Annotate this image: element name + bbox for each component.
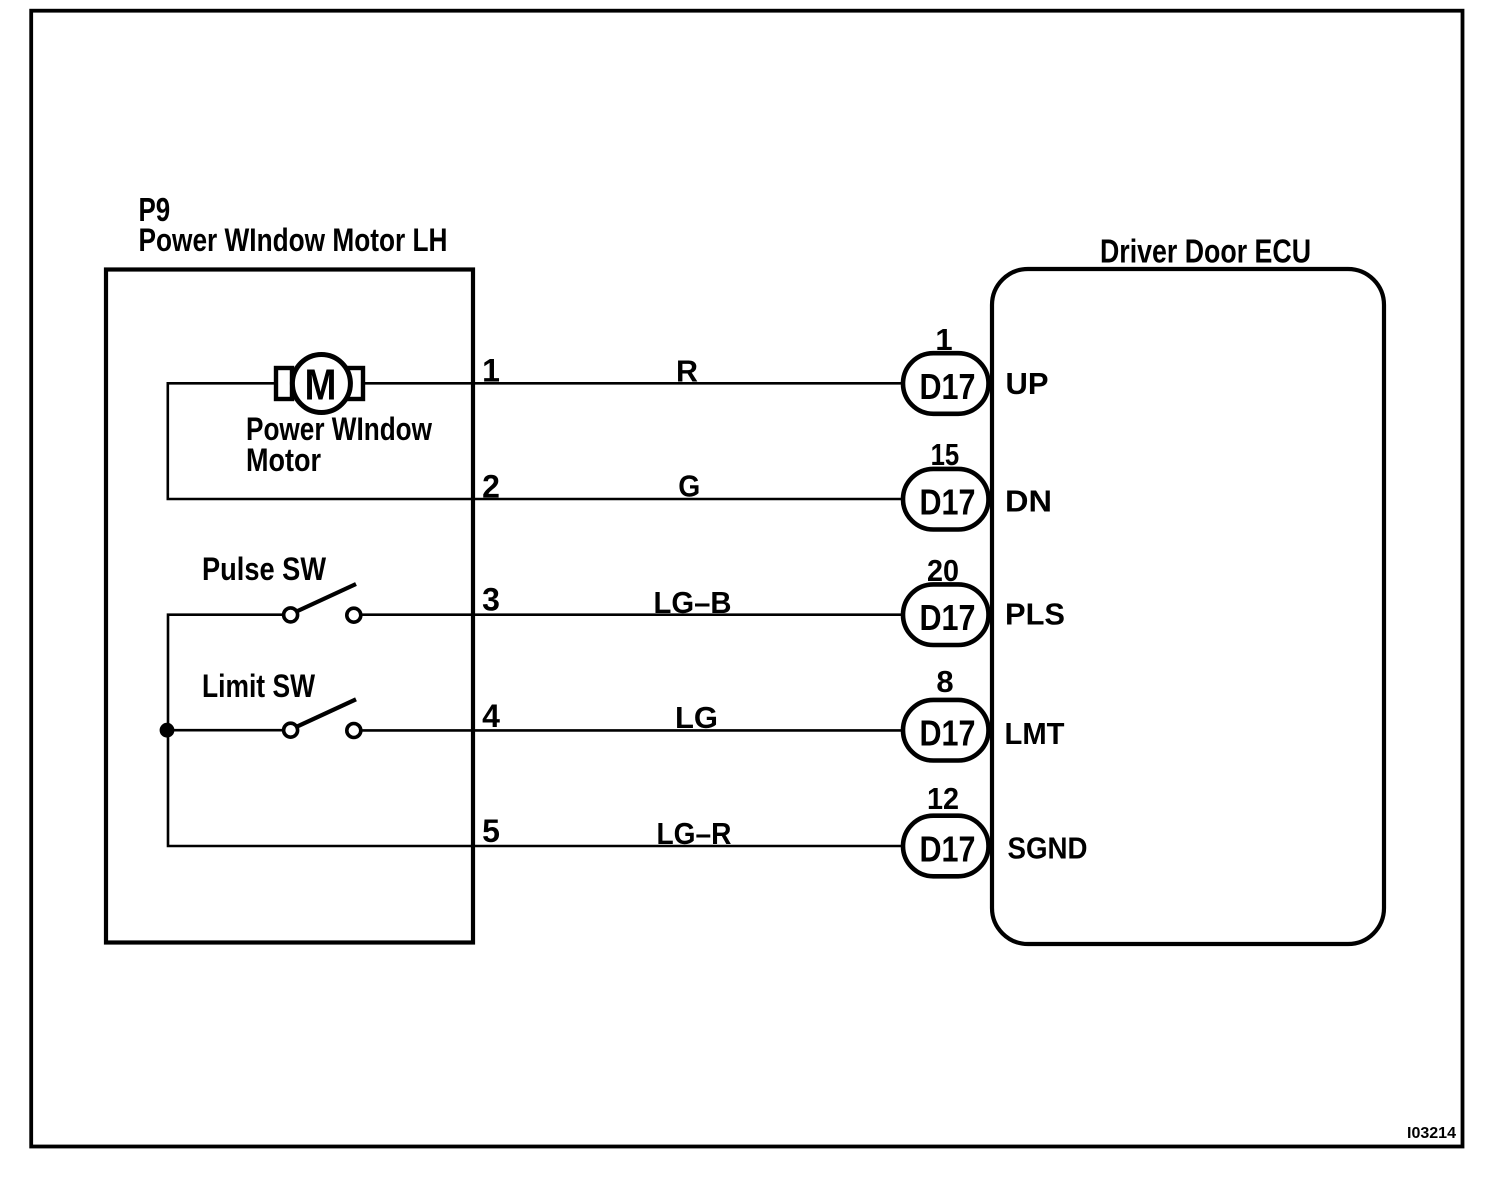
svg-text:15: 15 (931, 437, 960, 472)
svg-text:1: 1 (935, 322, 952, 357)
svg-text:4: 4 (482, 698, 500, 734)
svg-text:Driver Door ECU: Driver Door ECU (1100, 232, 1311, 269)
svg-text:20: 20 (927, 553, 959, 588)
wire: pin1 from motor right brush to D17 (362, 382, 904, 385)
svg-text:3: 3 (482, 582, 500, 618)
svg-text:R: R (676, 354, 698, 389)
connector oval D17 pin 20 (903, 584, 989, 645)
svg-text:I03214: I03214 (1407, 1125, 1456, 1142)
svg-text:LMT: LMT (1005, 716, 1065, 751)
svg-text:Limit SW: Limit SW (202, 668, 316, 704)
wire: limit SW left lead (168, 729, 285, 732)
connector oval D17 pin 8 (903, 700, 989, 761)
svg-text:2: 2 (482, 469, 500, 505)
svg-text:LG–B: LG–B (654, 585, 732, 620)
wire: motor loop (pin1 left lead, down, pin2 lead to D17) (168, 383, 904, 499)
svg-text:UP: UP (1006, 366, 1049, 401)
svg-text:12: 12 (927, 781, 959, 816)
motor M: left brush (276, 368, 292, 399)
wire: switch common (pulse SW left lead, down, SGND wire 5 to D17) (168, 615, 904, 846)
pulse switch SW: right contact (347, 608, 361, 622)
connector oval D17 pin 1 (903, 353, 989, 414)
svg-text:SGND: SGND (1008, 831, 1088, 866)
svg-text:LG–R: LG–R (657, 816, 732, 851)
svg-text:Motor: Motor (246, 442, 321, 478)
connector oval D17 pin 12 (903, 816, 989, 877)
svg-text:D17: D17 (920, 713, 976, 754)
ECU box Driver Door ECU (992, 269, 1384, 944)
pulse switch SW: left contact (284, 608, 298, 622)
svg-text:Pulse SW: Pulse SW (202, 551, 327, 587)
motor M: right brush (347, 368, 363, 399)
svg-text:D17: D17 (920, 366, 976, 407)
limit switch SW: left contact (284, 723, 298, 737)
svg-text:LG: LG (675, 700, 718, 735)
connector oval D17 pin 15 (903, 469, 989, 530)
svg-text:M: M (305, 362, 337, 410)
wire: pin4 from limit SW right contact to D17 (362, 729, 904, 732)
limit switch SW: blade (297, 699, 357, 727)
svg-text:1: 1 (482, 353, 500, 389)
svg-text:DN: DN (1005, 484, 1052, 519)
svg-text:5: 5 (482, 813, 500, 849)
limit switch SW: right contact (347, 724, 361, 738)
svg-text:D17: D17 (920, 482, 976, 523)
svg-text:D17: D17 (920, 597, 976, 638)
svg-text:8: 8 (936, 664, 953, 699)
component box P9 Power Window Motor LH (106, 270, 473, 943)
svg-text:Power WIndow Motor LH: Power WIndow Motor LH (139, 222, 448, 258)
motor M: body circle (292, 355, 350, 413)
junction dot on SGND branch at limit SW (160, 723, 175, 738)
wire: pin3 from pulse SW right contact to D17 (362, 613, 904, 616)
svg-text:D17: D17 (920, 829, 976, 870)
pulse switch SW: blade (297, 584, 357, 612)
svg-text:G: G (678, 469, 700, 504)
svg-text:PLS: PLS (1005, 597, 1065, 632)
